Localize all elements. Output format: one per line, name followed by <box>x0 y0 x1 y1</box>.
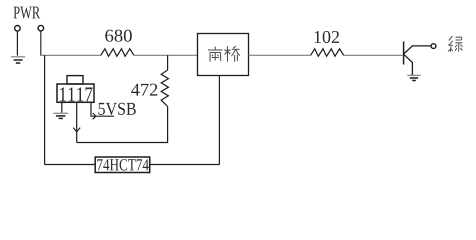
southbridge box <box>198 34 249 76</box>
resistor 680 zigzag <box>101 49 134 57</box>
wire: bottom loop right segment <box>150 164 220 166</box>
wire: main horizontal segment 4 (R102 to Q base) <box>344 54 404 56</box>
arrow on pin3 wire <box>93 113 96 119</box>
resistor 680 value label <box>105 30 131 42</box>
net label 绿 (drawn glyph) <box>448 36 463 52</box>
resistor 472 zigzag (vertical) <box>161 70 168 107</box>
wire: horizontal from pin2 to R472 bottom <box>77 142 168 144</box>
flipflop U 74HCT74 box <box>95 157 150 173</box>
terminal circle (green output) <box>431 44 436 49</box>
wire: main horizontal segment 2 (R680 to U southbridge) <box>134 54 198 56</box>
arrow on middle leg <box>73 128 80 132</box>
ground (transistor emitter) <box>407 75 420 80</box>
ground (1117) <box>53 113 68 118</box>
resistor 102 zigzag <box>311 49 344 57</box>
glyph 南 <box>208 47 223 62</box>
wire: loop left vertical (from PWR down) <box>44 55 46 164</box>
wire: main horizontal segment 3 (box to R102) <box>249 54 311 56</box>
regulator 1117 value label <box>60 87 93 101</box>
wire: main horizontal segment 1 (to R 680) <box>40 54 101 56</box>
wire: right terminal stem <box>40 31 42 55</box>
wire: 1117 pin2 (middle leg down) <box>76 102 78 142</box>
wire: 1117 pin3 (right leg) with bend <box>91 102 114 116</box>
resistor 102 value label <box>315 31 339 43</box>
southbridge label 南桥 (drawn glyphs) <box>208 46 240 62</box>
regulator U 1117 tab <box>67 76 83 84</box>
resistor 472 value label <box>131 84 157 96</box>
net label 5VSB <box>99 103 136 115</box>
ground (PWR left) <box>11 57 25 63</box>
wire: left terminal stem <box>16 31 18 55</box>
transistor collector lead <box>404 46 431 54</box>
flipflop label 74HCT74 <box>97 159 149 170</box>
wire: R472 top lead from main wire <box>167 55 169 70</box>
node PWR label <box>14 7 41 19</box>
wire: southbridge bottom pin down to bottom loop <box>218 76 220 165</box>
wire: bottom loop left segment <box>45 164 96 166</box>
transistor emitter lead <box>404 55 412 75</box>
wire: R472 bottom lead <box>167 107 169 144</box>
regulator U 1117 body <box>57 84 94 102</box>
transistor Q base bar <box>403 42 405 65</box>
terminal circle PWR right <box>38 25 44 31</box>
terminal circle PWR left <box>15 26 21 32</box>
wire: 1117 pin1 (left leg) <box>61 102 63 112</box>
glyph 桥 <box>224 46 240 62</box>
